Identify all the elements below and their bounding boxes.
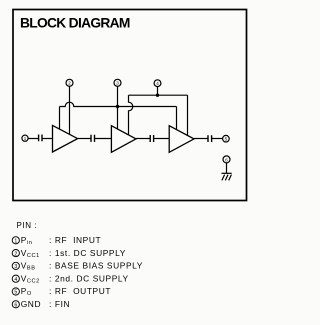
svg-text:GND: GND [21, 299, 41, 309]
pin 1 (Pin) [22, 135, 28, 141]
svg-text:2: 2 [68, 81, 71, 86]
svg-text:VCC1: VCC1 [21, 248, 40, 259]
svg-text:: RF OUTPUT: : RF OUTPUT [49, 286, 111, 296]
svg-text:: FIN: : FIN [49, 299, 70, 309]
svg-text:Pin: Pin [21, 235, 33, 246]
capacitor C3 [150, 135, 153, 142]
wire pin6 to ground [226, 163, 228, 173]
svg-text:: 1st. DC SUPPLY: : 1st. DC SUPPLY [49, 248, 126, 258]
svg-text:: 2nd. DC SUPPLY: : 2nd. DC SUPPLY [49, 273, 129, 283]
wire C2 to amp2 [95, 138, 112, 140]
node A: Vbb junction [116, 105, 119, 108]
wire Vbb right branch to amp3 [118, 106, 177, 108]
op-amp stage 3 [169, 126, 194, 153]
svg-text:: BASE BIAS SUPPLY: : BASE BIAS SUPPLY [49, 261, 143, 271]
capacitor C4 [208, 135, 212, 142]
pin list row 6: GND / FIN [12, 299, 70, 309]
wire Vcc2 right drop to amp3 [187, 95, 189, 136]
wire Vbb left branch with hop over pin2 wire [60, 102, 118, 106]
pin 6 (GND) [223, 156, 230, 163]
wire amp1 to C2 [78, 138, 91, 140]
svg-text:BLOCK DIAGRAM: BLOCK DIAGRAM [20, 16, 130, 31]
pin 3 (Vbb) [114, 79, 121, 86]
svg-text:5: 5 [225, 137, 228, 142]
pin list row 3: Vbb / BASE BIAS SUPPLY [12, 261, 143, 272]
ground [222, 172, 232, 174]
svg-text:VBB: VBB [21, 261, 36, 272]
pin list row 2: Vcc1 / 1st. DC SUPPLY [12, 248, 126, 259]
wire amp2 to C3 [136, 138, 150, 140]
wire pin1 to C1 [28, 138, 38, 140]
capacitor C2 [91, 135, 95, 142]
svg-text:6: 6 [14, 303, 17, 309]
wire Vbb left drop to amp1 [59, 107, 61, 129]
pin 4 (Vcc2) [154, 80, 161, 87]
wire C4 to pin5 [212, 138, 223, 140]
svg-text:PIN :: PIN : [17, 221, 38, 230]
wire amp3 to C4 [194, 138, 208, 140]
op-amp stage 2 [111, 126, 136, 153]
op-amp stage 1 [53, 125, 78, 152]
svg-text:3: 3 [116, 81, 119, 86]
svg-text:6: 6 [225, 157, 228, 162]
svg-text:: RF INPUT: : RF INPUT [49, 235, 101, 245]
svg-text:4: 4 [14, 277, 17, 283]
wire pin4 down to node [157, 87, 159, 96]
wire Vcc2 left drop to amp2 with hop over Vbb rail [129, 95, 133, 135]
wire C3 to amp3 [154, 138, 169, 140]
svg-text:1: 1 [14, 239, 17, 245]
svg-text:5: 5 [14, 290, 17, 296]
wire pin3 down to node [117, 86, 119, 106]
capacitor C1 [39, 135, 42, 142]
svg-text:VCC2: VCC2 [21, 273, 40, 284]
svg-text:4: 4 [156, 81, 159, 86]
wire Vbb right drop to amp3 [176, 107, 178, 130]
pin 5 (Po) [223, 135, 230, 142]
svg-text:PO: PO [21, 286, 32, 297]
wire Vcc2 horizontal rail [129, 94, 188, 96]
pin list row 1: Pin / RF INPUT [12, 235, 101, 246]
diagram frame [13, 10, 247, 201]
pin list row 4: Vcc2 / 2nd. DC SUPPLY [12, 273, 129, 284]
pin 2 (Vcc1) [66, 79, 73, 86]
wire Vbb down to amp2 [117, 107, 119, 130]
svg-text:3: 3 [14, 264, 17, 270]
pin list row 5: Po / RF OUTPUT [12, 286, 111, 297]
svg-text:2: 2 [14, 251, 17, 257]
wire pin2 down to amp1 top [69, 86, 71, 134]
wire C1 to amp1 [42, 138, 52, 140]
node B: Vcc2 junction [156, 94, 159, 97]
